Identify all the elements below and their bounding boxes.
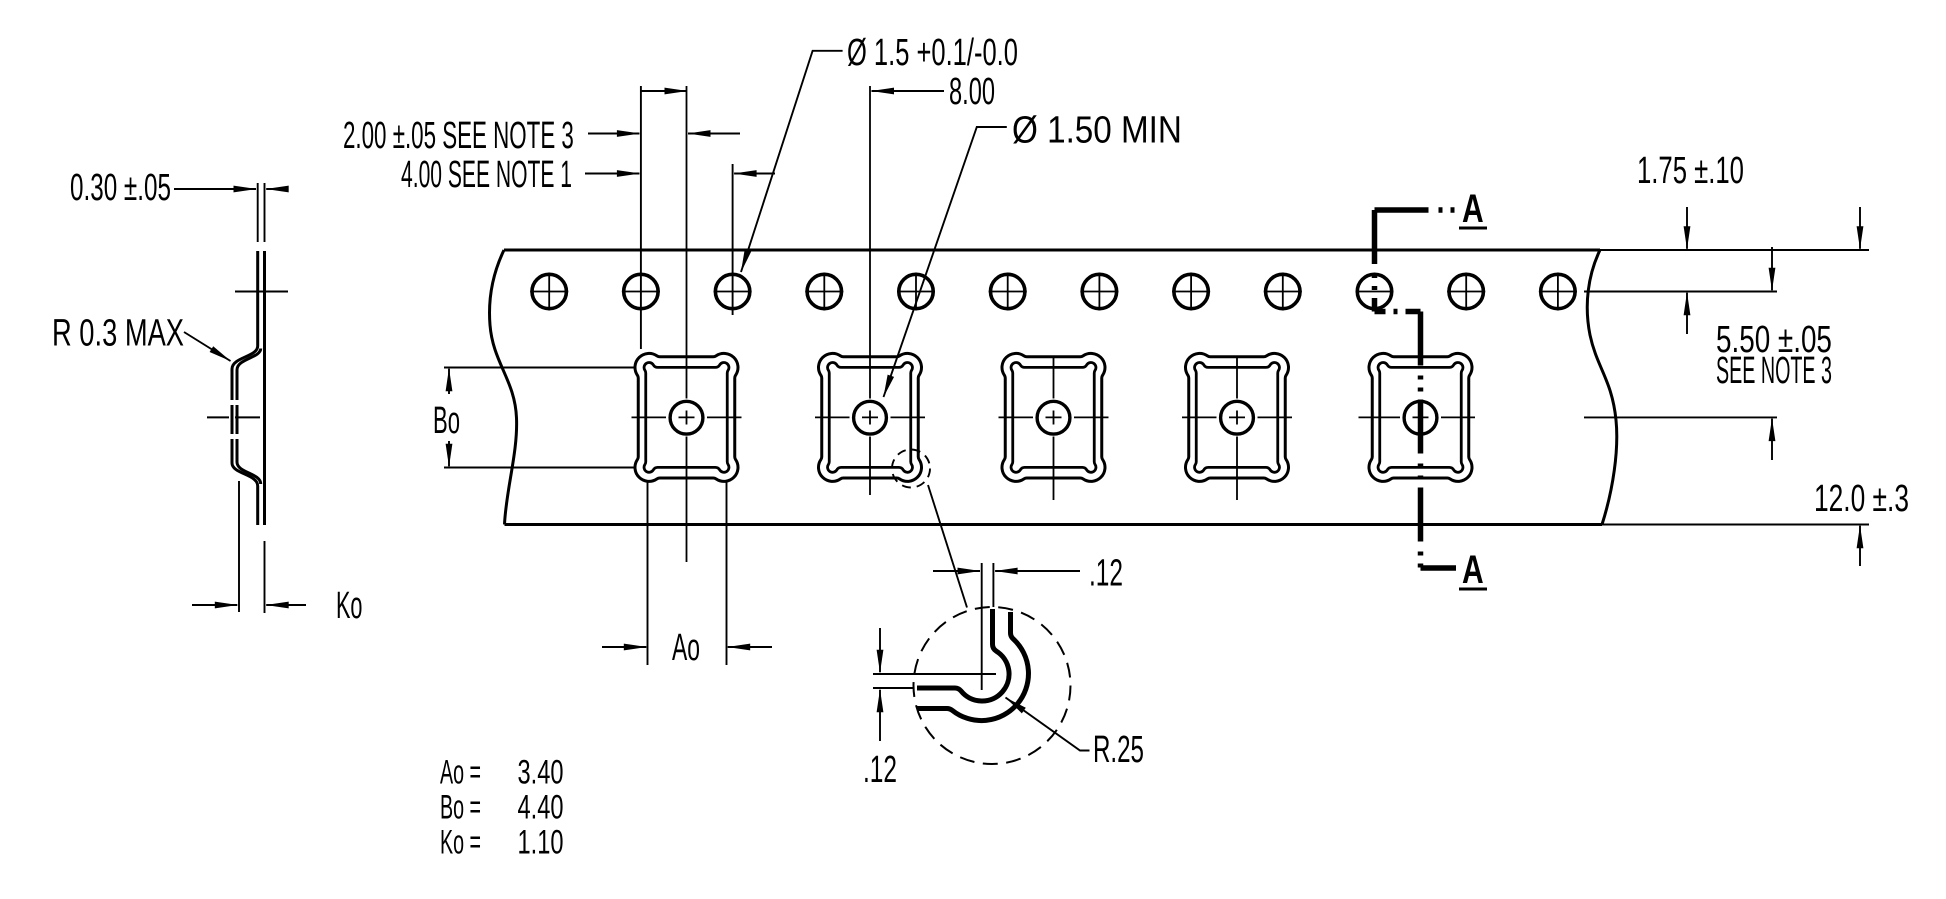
svg-text:2.00 ±.05 SEE NOTE 3: 2.00 ±.05 SEE NOTE 3 (343, 114, 574, 157)
dim 8.00 right arrow (872, 90, 945, 92)
svg-text:Bo: Bo (433, 399, 460, 442)
sprocket hole 12 (1541, 274, 1575, 308)
dim 4.00 left arrow (585, 173, 639, 175)
pocket 5 centerline horizontal (1359, 416, 1476, 418)
svg-text:8.00: 8.00 (949, 69, 995, 112)
svg-text:3.40: 3.40 (518, 754, 564, 791)
pocket 1 (635, 353, 738, 481)
ext line pocket centerline right (1584, 416, 1777, 418)
dim 4.00 right arrow (734, 173, 775, 175)
pocket 3 centerline horizontal (999, 416, 1109, 418)
sprocket hole 1 (532, 274, 566, 308)
svg-text:R.25: R.25 (1093, 727, 1144, 770)
detail boundary dashed circle (914, 607, 1071, 764)
dim Ao extension lines (648, 482, 727, 665)
tape left break (wavy) edge (490, 250, 517, 525)
tape right break (wavy) edge (1587, 250, 1617, 525)
dim 0.30 extension lines (258, 183, 265, 242)
svg-text:.12: .12 (863, 748, 897, 791)
svg-text:.12: .12 (1089, 551, 1123, 594)
svg-text:Ao =: Ao = (440, 753, 481, 791)
pocket 2 centerline vertical (869, 86, 871, 495)
svg-text:Ko: Ko (336, 584, 362, 627)
leader R 0.3 MAX (184, 332, 231, 361)
dim .12 left down arrow (879, 628, 881, 672)
dim Ao right arrow (728, 646, 772, 648)
section cut line A-A jog (1375, 309, 1421, 315)
svg-text:1.10: 1.10 (518, 824, 564, 861)
dim 1.75 bottom arrow (1686, 293, 1688, 334)
ext line sprocket centerline right (1584, 291, 1777, 293)
svg-text:1.75 ±.10: 1.75 ±.10 (1637, 149, 1744, 191)
sprocket hole 5 (899, 274, 933, 308)
pocket 4 centerline horizontal (1182, 416, 1292, 418)
ext line sprocket hole 3 (732, 164, 734, 315)
pocket 2 (818, 353, 921, 481)
leader dia 1.5 sprocket hole (741, 51, 843, 272)
detail outer edge ext line vertical (992, 563, 994, 607)
sprocket hole crosshairs horizontal (530, 291, 1577, 293)
dim 12.0 top arrow (1859, 207, 1861, 249)
detail callout circle on pocket 2 corner (892, 450, 930, 488)
svg-text:Ao: Ao (672, 626, 700, 668)
tape bottom edge (505, 523, 1603, 526)
dim Ko extension lines (239, 481, 265, 613)
sprocket hole 3 (715, 274, 749, 308)
leader dia 1.50 MIN pocket hole (884, 127, 1007, 397)
dim 2.00 left arrow (588, 133, 639, 135)
dim 1.75 top arrow (1686, 207, 1688, 249)
dim Bo extension lines (444, 368, 636, 468)
svg-text:Ko =: Ko = (440, 823, 481, 861)
svg-text:4.00 SEE NOTE 1: 4.00 SEE NOTE 1 (401, 152, 572, 195)
pocket 2 centerline horizontal (815, 416, 925, 418)
ext line sprocket hole 2 (640, 86, 642, 349)
pocket 1 centerline horizontal (632, 416, 742, 418)
dim 2.00 right arrow (688, 133, 740, 135)
dim 8.00 left segment and arrow (641, 90, 687, 92)
sprocket hole 9 (1266, 274, 1300, 308)
dim .12 top right arrow (995, 570, 1080, 572)
svg-text:A: A (1462, 187, 1484, 231)
pocket 1 centerline vertical (686, 86, 688, 562)
ext line tape top edge right (1600, 249, 1869, 251)
section sprocket centerline (235, 291, 288, 293)
svg-text:R 0.3 MAX: R 0.3 MAX (52, 312, 184, 354)
svg-text:Bo =: Bo = (440, 788, 481, 826)
dim 0.30 arrow right (266, 188, 288, 190)
section profile front surface with pocket emboss (232, 251, 258, 525)
ext line tape bottom edge right (1602, 524, 1869, 526)
svg-text:12.0 ±.3: 12.0 ±.3 (1814, 476, 1909, 519)
detail callout connector (928, 485, 967, 608)
section cut line A-A top horizontal (1375, 207, 1457, 213)
svg-text:A: A (1462, 548, 1484, 592)
svg-text:SEE NOTE 3: SEE NOTE 3 (1716, 350, 1832, 391)
sprocket hole 11 (1449, 274, 1483, 308)
detail pocket outer outline (917, 612, 1028, 721)
dim 12.0 bottom arrow (1859, 526, 1861, 566)
svg-text:Ø 1.50 MIN: Ø 1.50 MIN (1012, 108, 1182, 151)
sprocket hole 2 (624, 274, 658, 308)
pocket 3 centerline vertical (1053, 356, 1055, 500)
dim Ao left arrow (602, 646, 646, 648)
dim 0.30 arrow left (174, 188, 256, 190)
section emboss inner wall top curve (237, 349, 261, 371)
pocket 4 (1185, 353, 1288, 481)
svg-text:0.30 ±.05: 0.30 ±.05 (70, 165, 171, 208)
section emboss inner wall (236, 370, 239, 462)
detail corner center vertical line (981, 563, 983, 690)
tape top edge (504, 249, 1600, 252)
sprocket hole 4 (807, 274, 841, 308)
sprocket hole 8 (1174, 274, 1208, 308)
sprocket hole crosshairs vertical (549, 273, 1558, 311)
dim .12 left up arrow (879, 690, 881, 741)
sprocket hole 10 (1357, 274, 1391, 308)
dim 5.50 top arrow (1771, 247, 1773, 290)
dim .12 top left arrow (933, 570, 980, 572)
section emboss inner wall bottom curve (237, 462, 261, 484)
section pocket centerline (207, 416, 260, 418)
svg-text:4.40: 4.40 (518, 789, 564, 826)
dim 5.50 bottom arrow (1771, 419, 1773, 460)
sprocket hole 6 (991, 274, 1025, 308)
section cut line A-A upper vertical (1372, 210, 1378, 312)
pocket 4 centerline vertical (1236, 356, 1238, 500)
dim Ko arrow right (266, 604, 306, 606)
section emboss hole gaps (229, 400, 240, 405)
pocket 5 (1369, 353, 1472, 481)
section cut line A-A lower vertical (1418, 312, 1424, 569)
detail corner center horizontal line (873, 673, 996, 675)
svg-text:Ø 1.5 +0.1/-0.0: Ø 1.5 +0.1/-0.0 (847, 31, 1018, 73)
section cut line A-A bottom horizontal (1421, 565, 1457, 571)
pocket 3 (1002, 353, 1105, 481)
dim Ko arrow left (192, 604, 237, 606)
section profile back surface (263, 251, 266, 525)
section label A bottom underline (1459, 588, 1487, 591)
detail inner edge ext line horizontal (873, 687, 914, 689)
section label A top underline (1459, 227, 1487, 230)
dim Bo up arrow (448, 369, 450, 394)
sprocket hole 7 (1082, 274, 1116, 308)
dim Bo down arrow (448, 441, 450, 466)
detail pocket inner outline (917, 609, 1009, 701)
leader R.25 (1006, 698, 1090, 751)
